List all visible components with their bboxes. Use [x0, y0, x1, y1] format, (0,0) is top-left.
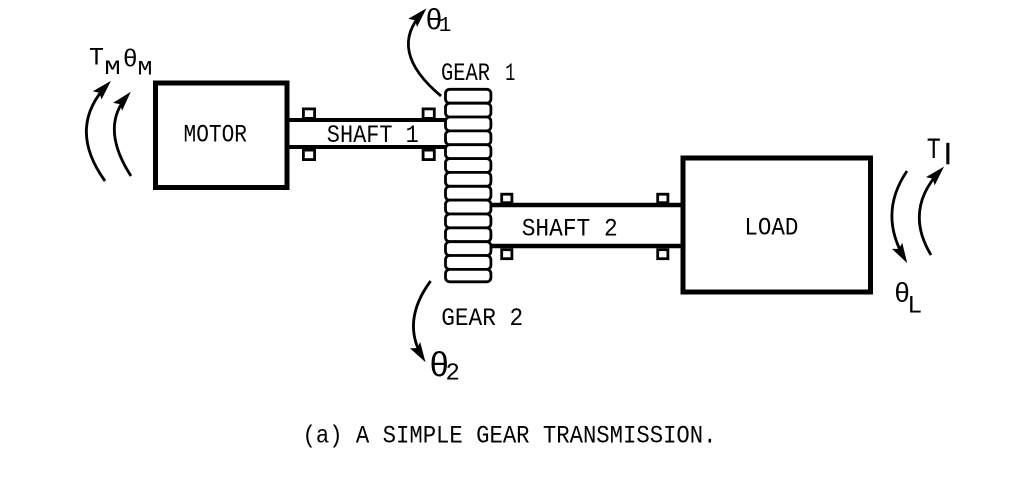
- svg-text:SHAFT 2: SHAFT 2: [522, 214, 618, 243]
- theta1 curved arrow: [408, 12, 441, 96]
- shaft 1 top line: [287, 118, 447, 122]
- svg-text:GEAR 2: GEAR 2: [441, 304, 523, 333]
- motor box: [156, 83, 288, 188]
- shaft 2 bearing block left top: [502, 194, 512, 203]
- svg-text:2: 2: [446, 361, 460, 388]
- theta2 curved arrow: [413, 281, 430, 358]
- svg-text:SHAFT 1: SHAFT 1: [327, 121, 419, 150]
- svg-text:LOAD: LOAD: [744, 214, 798, 243]
- load box: [683, 158, 871, 292]
- svg-text:L: L: [907, 291, 922, 320]
- shaft 2 bearing block right top: [658, 194, 668, 203]
- motor torque curved arrow inner: [114, 96, 131, 177]
- load torque curved arrow (up): [919, 170, 940, 255]
- shaft 2 bottom line: [489, 244, 684, 249]
- svg-text:1: 1: [505, 59, 515, 88]
- motor torque curved arrow outer: [86, 85, 107, 182]
- svg-text:M: M: [104, 58, 121, 81]
- shaft 1 bearing block right top: [423, 109, 434, 119]
- shaft 1 bottom line: [287, 145, 447, 149]
- svg-text:T: T: [89, 44, 104, 73]
- shaft 2 bearing block left bottom: [502, 250, 512, 259]
- svg-text:(a) A SIMPLE GEAR TRANSMISSION: (a) A SIMPLE GEAR TRANSMISSION.: [303, 422, 717, 451]
- svg-text:GEAR: GEAR: [441, 59, 490, 88]
- svg-text:T: T: [927, 134, 941, 168]
- gear 1 (upper gear teeth stack): [446, 89, 491, 186]
- shaft 2 bearing block right bottom: [658, 250, 668, 259]
- shaft 1 bearing block left bottom: [303, 150, 314, 160]
- shaft 1 bearing block right bottom: [423, 150, 434, 160]
- label theta1: [425, 5, 451, 38]
- shaft 2 top line: [489, 203, 684, 208]
- svg-text:MOTOR: MOTOR: [184, 120, 248, 149]
- label theta2: [429, 349, 460, 388]
- label TM thetaM: [89, 44, 153, 82]
- svg-text:1: 1: [439, 15, 452, 38]
- svg-text:M: M: [138, 58, 153, 81]
- gear 2 (lower gear teeth stack): [446, 186, 491, 281]
- label thetaL: [894, 281, 922, 321]
- load rotation curved arrow (down): [892, 171, 907, 259]
- shaft 1 bearing block left top: [303, 109, 314, 119]
- label Tl: [927, 134, 950, 168]
- svg-text:θ: θ: [123, 46, 138, 75]
